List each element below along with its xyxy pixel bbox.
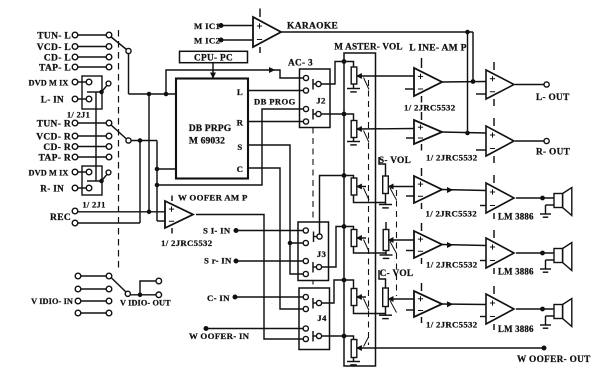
potentiometer VR6 master woofer [351, 340, 357, 358]
wire CPU-PC to DB PRPG with arrow [212, 63, 214, 78]
svg-text:J2: J2 [316, 96, 326, 106]
wire LM3886 output to speaker [516, 308, 554, 310]
speaker ground [546, 259, 555, 261]
potentiometer VR3 master surround-L [351, 178, 357, 195]
wire U4 output to output amp L [442, 81, 486, 84]
wire DB S output to J3 [248, 145, 303, 243]
wire woofer amp output to J4 pin4 [196, 215, 303, 340]
VR6 wiper arrow and WOOFER-OUT line [357, 346, 361, 350]
relay J1-R switch arm [102, 175, 107, 181]
svg-text:V IDIO- OUT: V IDIO- OUT [120, 299, 171, 308]
dashed gang outer pots [396, 190, 398, 296]
svg-text:LM 3886: LM 3886 [498, 267, 534, 277]
dashed gang J2-J3 [312, 128, 314, 223]
relay 1/2 J1 (L) box [82, 76, 102, 109]
power amp LM 3886 [486, 183, 514, 213]
op-amp U6 line amp surround-L [414, 176, 442, 203]
svg-text:TUN- R: TUN- R [37, 120, 71, 130]
speaker [554, 305, 563, 319]
VR8 ground [385, 251, 387, 256]
op-amp U8 line amp center [414, 291, 442, 317]
VR3 bottom wire to S-VOL ground [354, 195, 386, 203]
wire U8 output to LM3886 with arrow [442, 303, 486, 306]
speaker [554, 249, 563, 263]
wire karaoke mix vertical 2 [472, 32, 474, 82]
svg-text:M ASTER- VOL: M ASTER- VOL [334, 42, 402, 52]
wire R direct bypass to J2 pin3 [157, 109, 303, 185]
speaker ground [546, 204, 555, 206]
U6 power stubs and minus stub [421, 168, 423, 176]
VR7 ground [385, 194, 387, 205]
connector J2 pin 1 [303, 75, 308, 80]
wire karaoke output [281, 31, 473, 33]
connector J3 pin 1 [303, 228, 308, 233]
VR2 ground [353, 138, 355, 142]
speaker [554, 194, 563, 208]
svg-text:1/ 2JRC5532: 1/ 2JRC5532 [426, 260, 478, 270]
VR5 bottom wire to C-VOL ground [354, 306, 386, 314]
svg-text:1/ 2J1: 1/ 2J1 [67, 110, 90, 120]
connector J3 common 2 [316, 264, 321, 269]
wire REC-R [78, 222, 140, 224]
svg-text:W OOFER- IN: W OOFER- IN [189, 331, 250, 341]
svg-text:W OOFER- OUT: W OOFER- OUT [517, 355, 591, 365]
wire L common into DB PRPG [129, 93, 177, 95]
svg-text:S: S [237, 142, 242, 152]
VR1 wiper arrow and output to line amp [357, 74, 361, 78]
op-amp U9 output L [486, 70, 514, 99]
VR5 wiper arrow [357, 295, 361, 299]
svg-text:M IC1: M IC1 [194, 21, 220, 31]
potentiometer VR7 S-VOL [379, 157, 386, 176]
wire J4 common2 to master pot6 [322, 336, 354, 340]
node VIDIO-IN terminals row 2 [75, 286, 81, 292]
connector J2 pin 2 [303, 88, 308, 93]
svg-text:1/ 2J1: 1/ 2J1 [82, 200, 105, 210]
dashed gang linkage line (input selectors) [118, 30, 120, 268]
connector J2 box [300, 69, 331, 128]
wire L direct bypass to J2 pin1 with arrow [166, 70, 303, 94]
wire DB S branch to J3 pin4 [290, 243, 303, 274]
U4 power stubs and minus stub [421, 58, 423, 68]
dashed gang master volume wipers [368, 80, 370, 345]
VR2 wiper arrow and output to line amp [357, 127, 361, 131]
relay 1/2 J1 (R) box [82, 166, 102, 195]
svg-text:R- IN: R- IN [40, 184, 64, 194]
block master volume box [344, 53, 376, 366]
svg-text:W OOFER AM P: W OOFER AM P [178, 193, 248, 203]
power amp LM 3886 [486, 238, 514, 268]
block CPU-PC [180, 51, 248, 62]
VR9 ground [385, 307, 387, 316]
svg-text:L- OUT: L- OUT [536, 93, 570, 103]
svg-text:J3: J3 [317, 249, 327, 259]
relay J1-L internal contacts [87, 91, 102, 93]
svg-text:C: C [237, 164, 244, 174]
U10 power stubs and minus stub [493, 118, 495, 126]
connector J4 box [299, 288, 330, 350]
connector J2 pin 3 [303, 106, 308, 111]
svg-text:S r- IN: S r- IN [204, 256, 232, 266]
svg-text:S I- IN: S I- IN [203, 226, 231, 236]
wire video common to VIDIO-OUT [130, 294, 156, 296]
U8 power stubs and minus stub [421, 283, 423, 291]
VR3 wiper arrow [357, 184, 361, 188]
connector J3 box [298, 222, 329, 281]
potentiometer VR2 master R [351, 121, 357, 138]
svg-text:R: R [237, 118, 244, 128]
svg-text:LM 3886: LM 3886 [498, 324, 534, 334]
op-amp U10 output R [486, 126, 514, 156]
wire LM3886 output to speaker [516, 197, 554, 199]
wire L bus vertical [148, 94, 150, 212]
svg-text:J4: J4 [317, 313, 327, 323]
wire R common to direct branch [131, 140, 157, 142]
wire J2 common2 to master pot2 [321, 114, 353, 121]
potentiometer VR5 master center [351, 289, 357, 306]
node R selector common [126, 138, 131, 143]
wire REC-L to woofer amp input [78, 211, 165, 213]
wire U9 output to L-OUT terminal [515, 84, 544, 86]
node L selector common [126, 48, 131, 53]
op-amp U3 woofer amp [165, 201, 193, 228]
svg-text:M IC2: M IC2 [194, 36, 220, 46]
op-amp U5 line amp R [414, 120, 442, 144]
connector J3 pin 2 [303, 240, 308, 245]
selector arm L (from TUN-L) [111, 37, 127, 50]
VR7 wiper arrow to op-amp [389, 184, 393, 188]
connector J4 pin 2 [303, 306, 308, 311]
dashed gang J3-J4 [312, 281, 314, 289]
block U2 DB PRPG M 69032 [176, 79, 248, 179]
svg-text:CPU- PC: CPU- PC [194, 53, 233, 63]
VR1 ground [353, 84, 355, 89]
svg-text:1/ 2JRC5532: 1/ 2JRC5532 [426, 209, 478, 219]
wire karaoke mix vertical 1 [467, 32, 469, 133]
wire U7 output to LM3886 with arrow [442, 245, 486, 246]
connector J4 common 1 [316, 300, 321, 305]
svg-text:DVD M IX: DVD M IX [29, 169, 69, 178]
wire woofer amp minus input [157, 220, 165, 222]
VR4 wiper arrow [357, 236, 361, 240]
svg-text:L INE- AM P: L INE- AM P [409, 44, 466, 54]
VR8 wiper arrow to op-amp [389, 238, 393, 242]
connector J3 pin 4 [303, 271, 308, 276]
power amp LM 3886 [486, 294, 514, 324]
svg-text:REC: REC [50, 213, 71, 223]
potentiometer VR9 C-VOL [379, 270, 386, 288]
wire J2 common1 to master pot1 [321, 62, 353, 85]
speaker ground [546, 315, 555, 317]
wire R vertical branch [156, 141, 158, 222]
connector J3 pin 3 [303, 258, 308, 263]
connector J2 common 1 [316, 81, 321, 86]
node VIDIO-IN terminals row 1 [75, 273, 81, 279]
wire LM3886 output to speaker [516, 252, 554, 254]
U7 power stubs and minus stub [421, 223, 423, 231]
connector J3 common 1 [317, 234, 322, 239]
VR4 bottom wire to row4 ground [354, 247, 387, 254]
op-amp U1 power stubs [259, 9, 261, 18]
svg-text:TAP- L: TAP- L [39, 64, 71, 74]
op-amp U3 power stubs [171, 196, 173, 202]
wire video out upper branch [140, 281, 156, 295]
video selector switch arm [111, 278, 126, 293]
potentiometer VR8 surround-R level [385, 222, 387, 230]
svg-text:VCD- R: VCD- R [36, 133, 71, 143]
wire U6 output to LM3886 with arrow [442, 190, 486, 191]
wire J3 common2 to master pot4 [322, 227, 354, 268]
svg-text:C- VOL: C- VOL [380, 269, 414, 279]
svg-text:KARAOKE: KARAOKE [287, 22, 338, 32]
op-amp U1 KARAOKE mixer [253, 17, 281, 47]
svg-text:VCD- L: VCD- L [37, 43, 71, 53]
U5 power stubs and minus stub [421, 112, 423, 120]
connector J4 pin 4 [303, 336, 308, 341]
relay J1-R internal contacts [87, 180, 102, 182]
connector J4 pin 1 [303, 294, 308, 299]
wire L common down [128, 54, 130, 94]
wire J1 common pole vertical [95, 109, 97, 181]
svg-text:1/ 2JRC5532: 1/ 2JRC5532 [426, 153, 478, 163]
wire DB L output to J2 pin2 [248, 90, 303, 92]
svg-text:1/ 2JRC5532: 1/ 2JRC5532 [161, 238, 213, 248]
svg-text:AC- 3: AC- 3 [288, 59, 313, 69]
potentiometer VR4 master surround-R [351, 230, 357, 247]
wire DB R output to J2 pin4 [248, 121, 303, 123]
selector arm R (from TUN-R) [111, 125, 127, 140]
svg-text:V IDIO- IN: V IDIO- IN [31, 297, 73, 306]
U9 power stubs and minus stub [493, 62, 495, 70]
wire DB C output to J4 pin2 [248, 168, 303, 309]
connector J2 common 2 [316, 111, 321, 116]
svg-text:L: L [237, 87, 243, 97]
node VIDIO-IN terminals row 4 [75, 310, 81, 316]
svg-text:TUN- L: TUN- L [37, 32, 71, 42]
connector J4 common 2 [316, 333, 321, 338]
potentiometer VR1 master L [351, 67, 357, 84]
wire J4 common1 to master pot5 [322, 280, 354, 303]
VR9 wiper arrow to op-amp [389, 297, 393, 301]
wire R into DB PRPG [157, 168, 176, 170]
svg-text:CD- L: CD- L [44, 54, 71, 64]
svg-text:1/ 2JRC5532: 1/ 2JRC5532 [404, 103, 456, 113]
svg-text:LM 3886: LM 3886 [498, 212, 534, 222]
svg-text:DVD M IX: DVD M IX [29, 79, 69, 88]
connector J4 pin 3 [303, 326, 308, 331]
op-amp U7 line amp surround-R [414, 231, 442, 258]
relay J1-L switch arm [102, 86, 107, 92]
svg-text:R- OUT: R- OUT [536, 148, 571, 158]
svg-text:M 69032: M 69032 [189, 136, 225, 147]
wire U5 output to output amp R [442, 132, 486, 133]
wire J3 common1 to master pot3 [320, 176, 354, 234]
svg-text:DB PROG: DB PROG [254, 97, 296, 107]
wire U10 output to R-OUT terminal [515, 140, 544, 142]
connector J2 pin 4 [303, 119, 308, 124]
svg-text:1/ 2JRC5532: 1/ 2JRC5532 [426, 320, 478, 330]
op-amp U4 line amp L [414, 68, 442, 96]
VR6 ground [353, 358, 355, 362]
svg-text:L- IN: L- IN [41, 95, 64, 105]
svg-text:CD- R: CD- R [43, 143, 71, 153]
wire R bus vertical [139, 141, 141, 224]
svg-text:DB PRPG: DB PRPG [189, 123, 232, 134]
svg-text:C- IN: C- IN [207, 293, 230, 303]
svg-text:TAP- R: TAP- R [39, 154, 72, 164]
